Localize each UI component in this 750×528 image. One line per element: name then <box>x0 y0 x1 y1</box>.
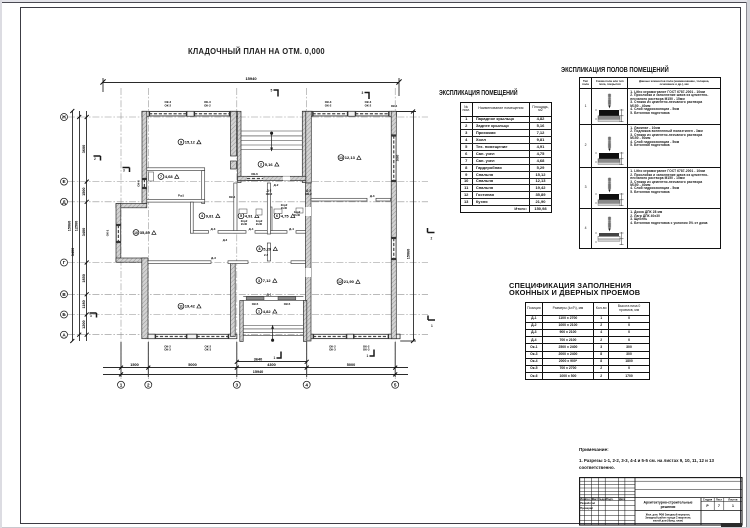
svg-text:15,12: 15,12 <box>185 140 196 145</box>
wall: step-out at axis Д <box>116 204 147 208</box>
svg-text:Д-3: Д-3 <box>211 227 216 231</box>
svg-text:3: 3 <box>362 91 364 95</box>
svg-text:Листов: Листов <box>728 497 738 501</box>
svg-text:9,81: 9,81 <box>206 213 215 218</box>
svg-text:15940: 15940 <box>245 76 257 81</box>
room label 13 <box>338 155 361 161</box>
wall: axis 4 upper (right wing left wall) <box>306 111 312 183</box>
svg-text:2: 2 <box>431 237 433 241</box>
table: floor types <box>579 77 721 249</box>
room label 1 <box>256 308 277 314</box>
svg-text:Р: Р <box>706 503 709 507</box>
partition: wardrobe left <box>190 202 193 233</box>
svg-text:35,89: 35,89 <box>140 230 151 235</box>
fixtures in sanitary rooms <box>149 172 304 215</box>
svg-text:Лист: Лист <box>716 497 723 501</box>
svg-text:3: 3 <box>258 279 260 283</box>
wall: bottom-left corner <box>116 258 148 262</box>
svg-text:Д-2: Д-2 <box>274 183 279 187</box>
partition: sanitary rooms mid <box>268 207 272 233</box>
svg-text:4,82: 4,82 <box>263 309 272 314</box>
stairs: front porch <box>243 326 303 336</box>
room label 11 <box>178 303 201 309</box>
svg-text:жилой дом (Фунд. план): жилой дом (Фунд. план) <box>652 519 683 522</box>
svg-text:ОК-2: ОК-2 <box>305 192 312 196</box>
svg-text:3600: 3600 <box>82 145 86 153</box>
svg-text:3640: 3640 <box>254 357 262 361</box>
svg-text:8: 8 <box>259 247 261 251</box>
svg-text:1: 1 <box>120 382 123 387</box>
page left edge shadow <box>0 0 2 528</box>
partition: lower rooms north <box>148 261 211 264</box>
page top edge shadow line <box>0 0 750 2</box>
svg-text:ОК-3: ОК-3 <box>205 348 212 352</box>
svg-text:5,16: 5,16 <box>265 162 274 167</box>
svg-text:2х40: 2х40 <box>241 222 248 226</box>
stairs: rear porch <box>241 131 302 150</box>
svg-text:ОК-5: ОК-5 <box>252 302 259 306</box>
wall: rear porch right <box>302 111 306 182</box>
title block <box>579 477 744 528</box>
svg-text:4,91: 4,91 <box>245 213 254 218</box>
svg-text:ОК-4: ОК-4 <box>391 104 398 108</box>
svg-text:Разработал: Разработал <box>580 501 595 505</box>
svg-text:21,90: 21,90 <box>344 279 355 284</box>
svg-text:12500: 12500 <box>75 221 79 232</box>
svg-text:ОК-5: ОК-5 <box>284 302 291 306</box>
svg-text:3400: 3400 <box>71 248 75 256</box>
svg-text:Дата: Дата <box>619 496 626 500</box>
svg-text:2х40: 2х40 <box>281 206 288 210</box>
room label 5 <box>238 213 259 219</box>
svg-text:4: 4 <box>305 382 308 387</box>
room label 10 <box>133 230 156 236</box>
room label 6 <box>274 213 295 219</box>
wall: top, right wing <box>303 111 397 116</box>
wall: left, lower part with window ОК-1 <box>116 204 121 263</box>
svg-text:13: 13 <box>339 156 343 160</box>
svg-text:2660: 2660 <box>396 154 400 161</box>
svg-text:9: 9 <box>180 140 182 144</box>
partition: room 7 right <box>202 171 205 204</box>
svg-text:1500: 1500 <box>130 363 138 367</box>
dimension chain: right <box>397 111 417 341</box>
svg-text:1200: 1200 <box>82 320 86 328</box>
svg-text:ОК-6: ОК-6 <box>251 172 258 176</box>
svg-text:Д-3: Д-3 <box>211 256 216 260</box>
wall: bottom, right wing <box>305 334 400 339</box>
room label 7 <box>158 174 179 180</box>
room label 2 <box>258 161 279 167</box>
dimension chains: bottom <box>103 342 408 377</box>
svg-text:Д-4: Д-4 <box>289 227 294 231</box>
svg-text:ОК-2: ОК-2 <box>266 192 273 196</box>
table: room schedule <box>460 102 553 213</box>
wall: rear porch left <box>238 111 241 182</box>
svg-text:ОК-6: ОК-6 <box>137 180 141 187</box>
svg-text:2: 2 <box>147 382 150 387</box>
room label 4 <box>199 213 220 219</box>
svg-text:4,75: 4,75 <box>281 213 290 218</box>
svg-text:Стадия: Стадия <box>703 497 713 501</box>
svg-text:Рш1: Рш1 <box>178 194 184 198</box>
axis grid lines <box>68 88 428 381</box>
wall: right exterior <box>391 111 396 338</box>
table: room schedule title <box>439 88 518 97</box>
svg-text:12,13: 12,13 <box>345 155 356 160</box>
wall: axis 3 lower (lower-left room right wall) <box>231 261 236 337</box>
notes <box>579 447 609 452</box>
svg-text:5000: 5000 <box>188 363 196 367</box>
table: openings spec <box>525 302 650 381</box>
svg-text:Проверил: Проверил <box>580 506 593 510</box>
svg-text:ОК-4: ОК-4 <box>229 195 236 199</box>
wall: left, upper wing <box>142 111 147 203</box>
partition: bottom of room 7 <box>147 199 205 202</box>
wall: top, left wing <box>142 111 238 116</box>
room label 9 <box>178 139 201 145</box>
svg-text:5: 5 <box>240 214 242 218</box>
svg-text:4: 4 <box>201 214 203 218</box>
partition: kitchen south <box>311 198 367 201</box>
svg-text:1850: 1850 <box>82 274 86 282</box>
svg-text:ОК-1: ОК-1 <box>106 229 110 236</box>
svg-text:4,68: 4,68 <box>165 174 174 179</box>
svg-text:10: 10 <box>134 231 138 235</box>
svg-text:7: 7 <box>718 503 720 507</box>
svg-text:Г: Г <box>63 260 66 265</box>
page right edge shadow line <box>746 2 747 528</box>
svg-text:15940: 15940 <box>253 370 264 374</box>
svg-text:ОК-3: ОК-3 <box>363 348 370 352</box>
svg-text:2-2: 2-2 <box>264 253 268 257</box>
svg-text:Архитектурно-строительные: Архитектурно-строительные <box>643 500 692 504</box>
partition: sanitary rooms left <box>234 183 237 233</box>
wall: axis 3 upper (left wing right wall) <box>231 111 237 156</box>
svg-text:ОК-2: ОК-2 <box>365 104 372 108</box>
svg-text:1: 1 <box>431 324 433 328</box>
svg-text:ОК-3: ОК-3 <box>329 348 336 352</box>
format label <box>721 523 743 527</box>
svg-text:2: 2 <box>260 163 262 167</box>
room label 3 <box>256 278 277 284</box>
svg-text:1: 1 <box>274 356 276 360</box>
svg-text:3: 3 <box>123 169 125 173</box>
svg-text:5,29: 5,29 <box>263 246 272 251</box>
svg-text:Ж: Ж <box>61 115 67 120</box>
svg-text:2: 2 <box>94 157 96 161</box>
svg-text:3: 3 <box>236 382 239 387</box>
wall: axis 4 lower <box>306 183 312 341</box>
axis bubbles bottom (numbers) <box>118 381 399 388</box>
svg-text:1180: 1180 <box>82 300 86 308</box>
svg-text:3400: 3400 <box>82 228 86 236</box>
axis bubbles left (letters) <box>61 114 68 339</box>
svg-text:Д-3: Д-3 <box>370 194 375 198</box>
front porch top band with windows ОК-5 and door Д-1 <box>243 296 303 300</box>
svg-text:ОК-2: ОК-2 <box>165 104 172 108</box>
svg-text:Д-3: Д-3 <box>223 238 228 242</box>
svg-text:5: 5 <box>394 382 397 387</box>
front porch right wall <box>303 301 306 342</box>
svg-text:решения: решения <box>660 505 675 509</box>
svg-text:1500: 1500 <box>82 187 86 195</box>
dimension chain: top <box>103 78 399 96</box>
plan main title <box>188 46 325 55</box>
svg-text:15060: 15060 <box>407 249 411 260</box>
svg-text:5000: 5000 <box>347 363 355 367</box>
svg-text:3: 3 <box>90 314 92 318</box>
svg-text:7,12: 7,12 <box>263 278 272 283</box>
room label 8 <box>257 246 278 252</box>
svg-text:Д-1: Д-1 <box>267 292 272 296</box>
svg-text:Е: Е <box>62 179 65 184</box>
svg-text:1: 1 <box>258 310 260 314</box>
svg-text:5: 5 <box>271 89 273 93</box>
dimension chains: left <box>73 111 87 341</box>
svg-text:2х40: 2х40 <box>294 213 301 217</box>
table: openings spec title <box>509 282 640 296</box>
svg-text:ОК-2: ОК-2 <box>325 104 332 108</box>
table: floor types title <box>561 65 669 74</box>
svg-text:Подп.: Подп. <box>606 496 614 500</box>
page bottom edge shadow <box>2 527 747 528</box>
partition: top of room 7 <box>147 168 205 171</box>
svg-text:11: 11 <box>179 305 183 309</box>
svg-text:6: 6 <box>276 214 278 218</box>
svg-text:ОК-2: ОК-2 <box>204 104 211 108</box>
section marks <box>90 90 436 358</box>
svg-text:15060: 15060 <box>68 221 72 232</box>
partition: corridor south wall <box>190 231 208 234</box>
svg-text:2х40: 2х40 <box>256 222 263 226</box>
svg-text:4300: 4300 <box>267 363 275 367</box>
svg-text:1: 1 <box>732 503 734 507</box>
room label 12 <box>337 279 360 285</box>
svg-text:ОК-3: ОК-3 <box>164 348 171 352</box>
wall: bottom, left wing <box>148 334 237 339</box>
svg-text:12: 12 <box>338 280 342 284</box>
front porch left wall <box>240 301 243 342</box>
svg-text:1: 1 <box>367 354 369 358</box>
svg-text:Д-4: Д-4 <box>249 227 254 231</box>
window labels on walls <box>164 100 375 352</box>
door opening stubs <box>0 0 1 1</box>
lintel marks near doors <box>223 104 398 257</box>
wall: left of lower-left room <box>142 258 148 339</box>
svg-text:7: 7 <box>160 175 162 179</box>
wall: rear porch bottom with window ОК-6 <box>238 176 306 180</box>
partition: center vertical <box>267 183 270 234</box>
svg-text:19,42: 19,42 <box>185 304 196 309</box>
